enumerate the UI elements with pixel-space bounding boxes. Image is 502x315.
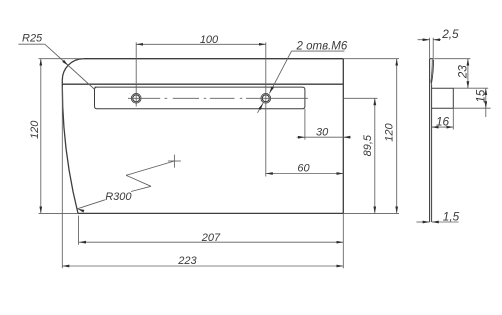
svg-text:120: 120: [29, 120, 41, 139]
svg-text:207: 207: [201, 232, 221, 244]
svg-text:89,5: 89,5: [362, 134, 374, 156]
svg-text:16: 16: [436, 114, 450, 128]
svg-text:30: 30: [316, 126, 329, 138]
svg-text:60: 60: [297, 163, 310, 175]
svg-text:R25: R25: [22, 33, 43, 45]
svg-text:R300: R300: [105, 191, 132, 203]
svg-text:15: 15: [474, 89, 488, 103]
svg-text:100: 100: [200, 34, 219, 46]
svg-text:2 отв.М6: 2 отв.М6: [296, 41, 348, 53]
svg-text:1,5: 1,5: [443, 209, 460, 223]
svg-text:2,5: 2,5: [441, 27, 459, 41]
svg-text:23: 23: [456, 65, 470, 80]
svg-text:120: 120: [384, 123, 396, 142]
svg-text:223: 223: [177, 255, 197, 267]
